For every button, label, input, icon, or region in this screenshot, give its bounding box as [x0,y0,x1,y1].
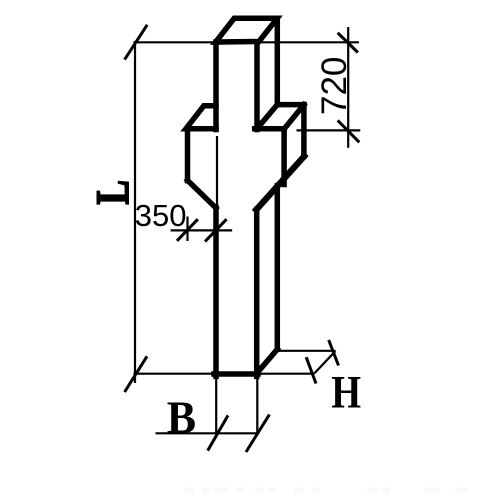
svg-text:L: L [87,180,139,204]
svg-text:B: B [167,391,196,444]
svg-text:350: 350 [135,198,187,233]
svg-text:720: 720 [315,57,354,115]
svg-text:H: H [331,367,361,418]
